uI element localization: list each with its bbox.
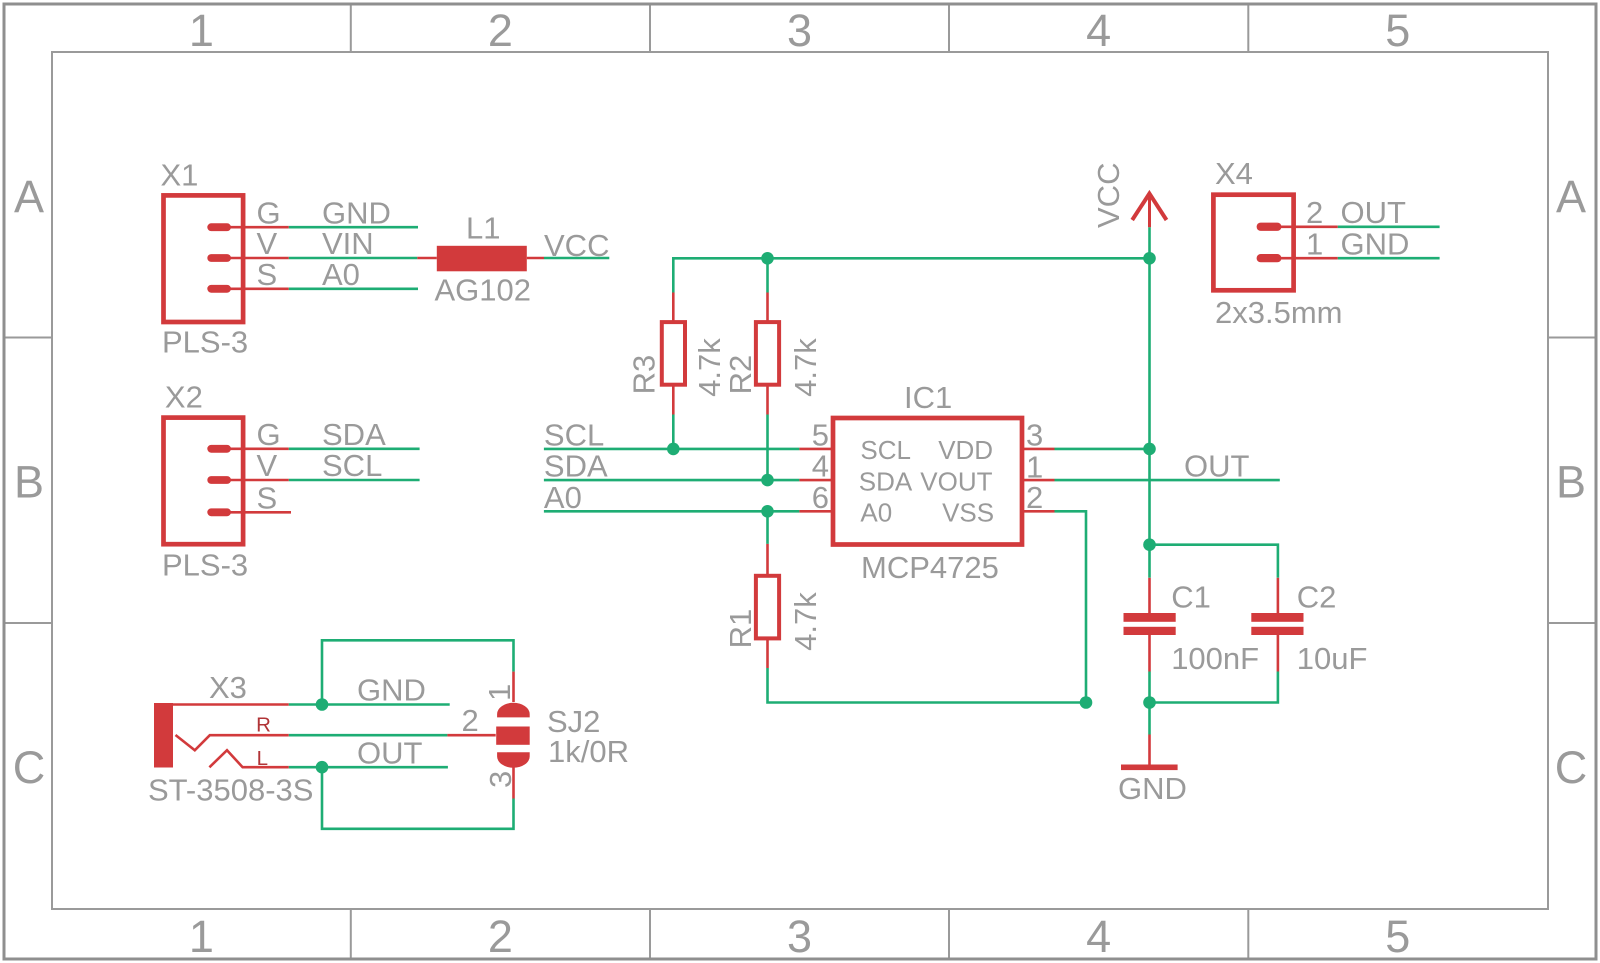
solder jumper SJ2 pad 1 <box>497 703 530 718</box>
svg-text:2x3.5mm: 2x3.5mm <box>1215 295 1342 330</box>
frame ticks left <box>6 338 53 624</box>
junction dot VSS-GND net <box>1080 696 1093 709</box>
wire SCL net <box>544 448 800 451</box>
svg-text:PLS-3: PLS-3 <box>162 325 248 360</box>
X2 pin G pill <box>207 445 231 453</box>
svg-text:IC1: IC1 <box>904 380 952 415</box>
SJ2 pad 2 <box>496 727 530 745</box>
svg-text:OUT: OUT <box>357 735 423 770</box>
X3 tip contact L <box>209 750 288 767</box>
svg-text:2: 2 <box>488 911 513 962</box>
IC1 pin 5 stub <box>799 448 832 451</box>
junction dot GND net center <box>1143 696 1156 709</box>
wire OUT from X4 <box>1338 226 1440 229</box>
wire SCL from X2 <box>289 479 420 482</box>
connector X1 <box>164 195 244 322</box>
svg-text:SDA: SDA <box>544 449 608 484</box>
wire GND from X3 <box>289 703 450 706</box>
junction dot X3 GND <box>316 698 329 711</box>
svg-text:1: 1 <box>1306 226 1323 261</box>
svg-text:VCC: VCC <box>1091 163 1126 228</box>
svg-text:V: V <box>257 226 278 261</box>
X2 pin S line <box>225 511 291 514</box>
svg-text:R3: R3 <box>627 355 662 395</box>
svg-text:1k/0R: 1k/0R <box>548 734 629 769</box>
svg-text:G: G <box>257 195 281 230</box>
op-amp IC1 box <box>833 418 1022 545</box>
svg-text:B: B <box>1556 456 1586 507</box>
connector X2 <box>164 418 244 545</box>
svg-text:A: A <box>14 171 44 222</box>
wire top loop to SJ2 pin1 <box>322 640 514 704</box>
svg-text:R1: R1 <box>723 609 758 649</box>
wire VCC arrow to bus <box>1148 227 1151 258</box>
inductor L1 pin left <box>417 257 437 260</box>
junction dot C1 branch <box>1143 538 1156 551</box>
wire VSS pin2 to GND net <box>1055 511 1087 702</box>
X4 pin 2 line <box>1275 226 1338 229</box>
wire VCC stub after L1 <box>544 257 609 260</box>
svg-text:C2: C2 <box>1297 579 1337 614</box>
X4 pin 1 pill <box>1257 254 1282 262</box>
wire C2 bottom to GND net <box>1150 672 1278 703</box>
svg-text:3: 3 <box>1026 417 1043 452</box>
svg-text:A: A <box>1556 171 1586 222</box>
svg-text:2: 2 <box>488 5 513 56</box>
X1 pin G pill <box>207 223 231 231</box>
svg-text:VIN: VIN <box>322 226 374 261</box>
junction dot A0-R1 <box>761 505 774 518</box>
SJ2 pin 3 stub <box>512 768 515 799</box>
X2 pin G line <box>225 447 289 450</box>
resistor R2 <box>766 293 769 323</box>
svg-text:S: S <box>257 480 278 515</box>
X3 sleeve pin line <box>173 703 289 706</box>
svg-text:GND: GND <box>1118 771 1187 806</box>
X2 pin S pill <box>207 508 231 516</box>
X3 ring contact R <box>176 735 289 750</box>
svg-text:AG102: AG102 <box>435 273 532 308</box>
svg-text:3: 3 <box>787 5 812 56</box>
svg-text:VOUT: VOUT <box>920 466 992 496</box>
svg-text:4.7k: 4.7k <box>692 338 727 397</box>
svg-text:6: 6 <box>812 480 829 515</box>
wire C2 branch top <box>1150 545 1278 578</box>
svg-text:C1: C1 <box>1171 579 1211 614</box>
junction dot R2 top bus <box>761 252 774 265</box>
svg-text:B: B <box>14 456 44 507</box>
IC1 pin 3 stub <box>1023 448 1055 451</box>
wire A0 net <box>544 510 800 513</box>
SJ2 pad 3 <box>497 752 530 767</box>
ground symbol <box>1148 735 1151 765</box>
svg-text:1: 1 <box>482 684 517 701</box>
wire OUT from X3 <box>289 766 448 769</box>
wire R1 bottom to GND net <box>768 668 1087 703</box>
IC1 pin 6 stub <box>799 510 832 513</box>
svg-text:ST-3508-3S: ST-3508-3S <box>148 773 313 808</box>
svg-text:C: C <box>1555 742 1588 793</box>
frame ticks bottom <box>351 909 1249 958</box>
inductor L1 pin right <box>527 257 544 260</box>
svg-text:OUT: OUT <box>1341 195 1407 230</box>
X1 pin S line <box>225 287 289 290</box>
power symbol VCC arrow <box>1132 194 1166 220</box>
X4 pin 2 pill <box>1257 223 1282 231</box>
wire GND from X4 <box>1338 257 1440 260</box>
IC1 pin 1 stub <box>1023 479 1055 482</box>
junction dot pin3-VCC <box>1143 443 1156 456</box>
svg-text:3: 3 <box>787 911 812 962</box>
svg-text:5: 5 <box>1385 5 1410 56</box>
junction dot SCL-R3 <box>667 443 680 456</box>
wire R2 top to VCC bus <box>766 258 769 292</box>
svg-text:VCC: VCC <box>544 228 609 263</box>
svg-text:X2: X2 <box>165 379 203 414</box>
svg-text:2: 2 <box>1026 480 1043 515</box>
SJ2 pin 1 stub <box>512 672 515 702</box>
svg-text:X1: X1 <box>161 158 199 193</box>
wire R3 bottom to SCL net <box>672 415 675 449</box>
frame ticks top <box>351 6 1249 53</box>
IC1 pin 2 stub <box>1023 510 1055 513</box>
svg-text:GND: GND <box>1341 226 1410 261</box>
svg-text:G: G <box>257 417 281 452</box>
SJ2 pin 2 stub <box>447 734 495 737</box>
svg-text:4: 4 <box>1086 5 1111 56</box>
svg-text:4: 4 <box>1086 911 1111 962</box>
svg-text:2: 2 <box>462 703 479 738</box>
wire VOUT pin1 OUT <box>1055 479 1280 482</box>
svg-text:V: V <box>257 448 278 483</box>
svg-text:L1: L1 <box>466 210 500 245</box>
svg-text:VSS: VSS <box>942 498 994 528</box>
wire SDA from X2 <box>289 447 420 450</box>
svg-text:5: 5 <box>812 417 829 452</box>
resistor R1 <box>766 544 769 577</box>
wire GND from X1 <box>289 226 418 229</box>
svg-text:MCP4725: MCP4725 <box>861 550 999 585</box>
wire R3 top to VCC bus <box>672 258 675 292</box>
IC1 pin 4 stub <box>799 479 832 482</box>
svg-text:R2: R2 <box>723 355 758 395</box>
X2 pin V line <box>225 479 289 482</box>
svg-text:C: C <box>13 742 46 793</box>
svg-text:SCL: SCL <box>544 417 604 452</box>
wire GND stub <box>1148 703 1151 735</box>
resistor R3 <box>672 293 675 323</box>
svg-text:VDD: VDD <box>938 435 993 465</box>
svg-text:1: 1 <box>189 911 214 962</box>
capacitor C1 <box>1148 578 1151 614</box>
frame ticks right <box>1548 338 1595 624</box>
wire VIN from X1 <box>289 257 418 260</box>
X4 pin 1 line <box>1275 257 1338 260</box>
wire A0 from X1 <box>289 287 418 290</box>
svg-text:SCL: SCL <box>322 448 382 483</box>
wire R row to SJ2 pin2 <box>289 734 448 737</box>
X1 pin V pill <box>207 254 231 262</box>
svg-text:A0: A0 <box>322 257 360 292</box>
svg-text:L: L <box>257 747 268 770</box>
junction dot SDA-R2 <box>761 474 774 487</box>
wire bottom loop to SJ2 pin3 <box>322 767 514 829</box>
inductor L1 body <box>437 246 527 271</box>
X2 pin V pill <box>207 476 231 484</box>
svg-text:A0: A0 <box>860 498 892 528</box>
svg-text:GND: GND <box>357 673 426 708</box>
X1 pin V line <box>225 257 289 260</box>
X1 pin G line <box>225 226 289 229</box>
svg-text:X3: X3 <box>209 670 247 705</box>
connector X4 <box>1213 195 1293 291</box>
svg-text:100nF: 100nF <box>1171 641 1259 676</box>
wire SDA net <box>544 479 800 482</box>
svg-text:S: S <box>257 257 278 292</box>
svg-text:SCL: SCL <box>860 435 911 465</box>
wire VCC vertical line <box>1148 258 1151 578</box>
wire A0 net to R1 top <box>766 511 769 544</box>
svg-text:4: 4 <box>812 449 829 484</box>
svg-text:GND: GND <box>322 195 391 230</box>
wire VCC top bus <box>672 257 1150 260</box>
svg-text:X4: X4 <box>1215 156 1253 191</box>
wire VDD pin3 to VCC line <box>1055 448 1150 451</box>
svg-text:1: 1 <box>189 5 214 56</box>
svg-text:SDA: SDA <box>322 417 386 452</box>
svg-text:A0: A0 <box>544 480 582 515</box>
wire R2 bottom to SDA net <box>766 415 769 481</box>
svg-text:4.7k: 4.7k <box>788 592 823 651</box>
svg-text:OUT: OUT <box>1184 449 1250 484</box>
junction dot VCC bus <box>1143 252 1156 265</box>
X1 pin S pill <box>207 285 231 293</box>
svg-text:PLS-3: PLS-3 <box>162 548 248 583</box>
svg-text:10uF: 10uF <box>1297 641 1368 676</box>
audio jack X3 sleeve bar <box>154 703 173 768</box>
svg-text:5: 5 <box>1385 911 1410 962</box>
svg-text:2: 2 <box>1306 195 1323 230</box>
svg-text:4.7k: 4.7k <box>788 338 823 397</box>
svg-text:3: 3 <box>483 771 518 788</box>
svg-text:R: R <box>256 714 271 737</box>
junction dot X3 OUT <box>316 761 329 774</box>
capacitor C2 <box>1277 578 1280 614</box>
svg-text:SDA: SDA <box>859 466 913 496</box>
